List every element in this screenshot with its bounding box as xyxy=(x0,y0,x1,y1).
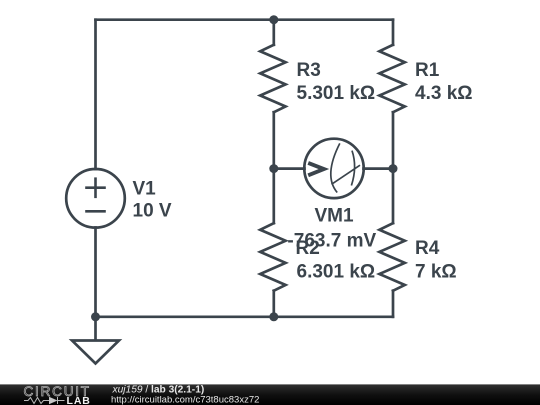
svg-text:R1: R1 xyxy=(415,60,440,81)
svg-text:5.301 kΩ: 5.301 kΩ xyxy=(297,83,376,104)
svg-text:LAB: LAB xyxy=(67,395,91,405)
svg-text:R4: R4 xyxy=(415,238,440,259)
svg-text:7 kΩ: 7 kΩ xyxy=(415,261,457,282)
svg-text:http://circuitlab.com/c73t8uc8: http://circuitlab.com/c73t8uc83xz72 xyxy=(111,394,259,405)
svg-text:6.301 kΩ: 6.301 kΩ xyxy=(297,261,376,282)
svg-text:VM1: VM1 xyxy=(314,206,354,227)
svg-text:V1: V1 xyxy=(133,179,157,200)
svg-text:R3: R3 xyxy=(297,60,321,81)
svg-text:4.3 kΩ: 4.3 kΩ xyxy=(415,83,473,104)
svg-text:-763.7 mV: -763.7 mV xyxy=(287,230,376,251)
svg-text:10 V: 10 V xyxy=(133,201,172,222)
